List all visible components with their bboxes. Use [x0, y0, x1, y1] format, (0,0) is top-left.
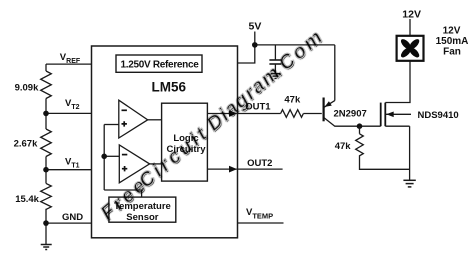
fan M1 blades — [399, 37, 421, 59]
MOSFET Q2 source stub — [385, 125, 409, 127]
Temperature Sensor box — [109, 197, 176, 222]
resistor R4 47k — [281, 110, 304, 118]
svg-text:OUT2: OUT2 — [247, 158, 272, 169]
Logic Circuitry box — [162, 103, 208, 181]
wire U1a output — [148, 119, 162, 121]
wire node to R5 — [359, 126, 361, 134]
svg-text:Fan: Fan — [443, 47, 461, 58]
wire OUT2 external — [238, 168, 283, 170]
wire R5 bottom to ground rail — [360, 160, 410, 169]
node 5V — [252, 42, 258, 48]
svg-text:2.67k: 2.67k — [14, 139, 38, 150]
svg-text:9.09k: 9.09k — [15, 83, 39, 94]
wire chain top segment — [45, 64, 47, 71]
wire fan top — [409, 19, 411, 36]
wire VREF horizontal — [46, 63, 116, 65]
wire MOSFET source down — [409, 126, 411, 180]
wire sensor bottom jog — [104, 190, 141, 197]
wire 5V rail — [255, 44, 335, 46]
wire collector to gate — [360, 125, 381, 127]
ground symbol left chain — [41, 245, 52, 250]
fan M1 box — [397, 36, 424, 61]
wire VT1 horizontal — [46, 169, 119, 171]
1.250V Reference box — [116, 55, 202, 72]
wire 5V vertical — [254, 32, 256, 45]
node VT2 — [43, 111, 49, 117]
resistor R5 47k — [356, 134, 364, 160]
wire R1 to VT2 node — [45, 99, 47, 114]
svg-text:150mA: 150mA — [436, 36, 469, 47]
wire VT2 node to R2 — [45, 113, 47, 129]
wire R3 to GND node — [45, 209, 47, 223]
MOSFET Q2 body arrow — [386, 112, 394, 118]
op-amp U1b plus sign — [122, 166, 127, 171]
node collector — [357, 123, 363, 129]
wire Q1 emitter vertical — [334, 45, 336, 101]
MOSFET Q2 channel bar — [384, 103, 386, 127]
capacitor C1 lead top — [274, 45, 276, 60]
wire GND node to ground — [45, 223, 47, 244]
wire U1b output — [150, 163, 162, 165]
capacitor C1 lead bottom — [274, 64, 276, 73]
node VT1 — [43, 167, 49, 173]
wire VTEMP external — [238, 222, 284, 224]
svg-text:GND: GND — [62, 212, 83, 223]
MOSFET Q2 body lead — [386, 113, 411, 115]
capacitor C1 plates — [269, 60, 281, 64]
op-amp U1b minus sign — [122, 154, 127, 156]
wire GND horizontal — [46, 222, 92, 224]
op-amp U1a minus sign — [122, 109, 127, 111]
MOSFET Q2 gate bar — [380, 103, 382, 127]
resistor R1 9.09k — [41, 71, 52, 99]
wire 5V jog to LM56 — [238, 45, 255, 63]
wire minus input U1b — [104, 155, 119, 157]
svg-text:47k: 47k — [284, 95, 301, 106]
transistor Q1 2N2907 base bar — [323, 98, 325, 122]
svg-text:VREF: VREF — [60, 52, 81, 65]
wire R2 to VT1 node — [45, 157, 47, 170]
LM56 box U1 — [92, 46, 238, 238]
op-amp U1a triangle — [119, 100, 148, 138]
svg-text:NDS9410: NDS9410 — [418, 110, 459, 121]
transistor Q1 emitter arrow — [325, 101, 332, 107]
arrowhead OUT1 — [229, 110, 237, 117]
resistor R2 2.67k — [41, 129, 52, 157]
resistor R3 15.4k — [41, 183, 52, 209]
ground symbol MOSFET — [403, 180, 415, 187]
node sensor junction — [101, 154, 107, 160]
wire R4 to Q1 base — [303, 113, 321, 115]
svg-text:12V: 12V — [402, 9, 421, 21]
transistor Q1 collector — [324, 118, 359, 126]
node GND — [43, 220, 49, 226]
svg-text:VT1: VT1 — [65, 157, 80, 170]
wire plus input U1a — [104, 124, 119, 126]
svg-text:5V: 5V — [249, 21, 262, 33]
ground symbol capacitor — [271, 74, 281, 79]
op-amp U1a plus sign — [122, 121, 127, 126]
wire OUT1 internal — [207, 113, 236, 115]
svg-text:Sensor: Sensor — [126, 212, 159, 223]
svg-text:15.4k: 15.4k — [15, 194, 39, 205]
wire VT2 horizontal — [46, 112, 119, 114]
svg-text:47k: 47k — [335, 141, 352, 152]
wire VT1 node to R3 — [45, 170, 47, 184]
watermark FreeCircuitDiagram.Com — [97, 25, 330, 226]
svg-text:12V: 12V — [443, 26, 461, 37]
arrowhead OUT2 — [229, 166, 237, 173]
svg-text:2N2907: 2N2907 — [334, 109, 367, 120]
MOSFET Q2 drain stub — [385, 61, 410, 103]
transistor Q1 emitter — [324, 101, 335, 108]
svg-text:VTEMP: VTEMP — [246, 207, 273, 221]
wire OUT2 internal — [207, 168, 236, 170]
svg-text:VT2: VT2 — [65, 98, 80, 111]
op-amp U1b triangle — [119, 145, 149, 183]
svg-text:LM56: LM56 — [152, 80, 187, 95]
svg-text:1.250V Reference: 1.250V Reference — [120, 59, 199, 70]
wire sensor vertical — [103, 125, 105, 191]
wire OUT1 external — [238, 113, 281, 115]
